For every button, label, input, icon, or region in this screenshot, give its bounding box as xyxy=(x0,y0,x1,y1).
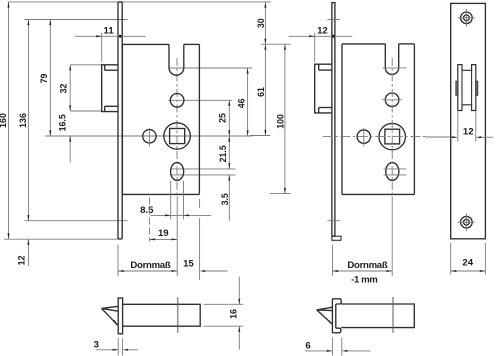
svg-text:12: 12 xyxy=(17,255,27,265)
svg-text:15: 15 xyxy=(183,259,194,270)
svg-text:160: 160 xyxy=(0,113,8,128)
svg-text:100: 100 xyxy=(276,114,286,129)
svg-text:32: 32 xyxy=(59,84,69,94)
svg-text:46: 46 xyxy=(236,98,246,108)
svg-text:16: 16 xyxy=(229,309,239,319)
svg-text:12: 12 xyxy=(317,26,328,37)
svg-text:79: 79 xyxy=(39,74,49,84)
svg-text:25: 25 xyxy=(218,113,228,123)
svg-text:16.5: 16.5 xyxy=(57,114,67,131)
svg-text:30: 30 xyxy=(256,18,266,28)
svg-text:61: 61 xyxy=(256,87,266,97)
svg-text:8.5: 8.5 xyxy=(140,205,154,216)
svg-text:6: 6 xyxy=(305,341,310,352)
svg-text:3.5: 3.5 xyxy=(220,193,230,205)
svg-text:-1 mm: -1 mm xyxy=(351,274,377,285)
svg-text:21.5: 21.5 xyxy=(218,145,228,162)
svg-text:3: 3 xyxy=(94,340,99,351)
svg-text:12: 12 xyxy=(463,126,474,137)
svg-text:19: 19 xyxy=(158,228,169,239)
svg-text:Dornmaß: Dornmaß xyxy=(130,260,170,271)
svg-text:24: 24 xyxy=(462,258,473,269)
svg-text:136: 136 xyxy=(18,113,28,128)
svg-text:11: 11 xyxy=(104,26,115,37)
svg-text:Dornmaß: Dornmaß xyxy=(347,260,387,271)
